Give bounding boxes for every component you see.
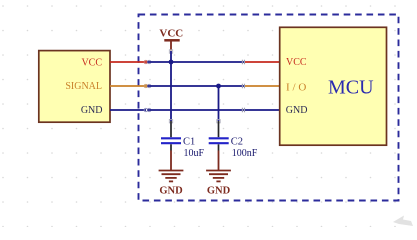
svg-text:VCC: VCC (159, 28, 183, 40)
wire GND net (148, 109, 245, 111)
dashed block boundary (139, 15, 399, 201)
capacitor C1 (161, 120, 181, 151)
pin end marker GND (MCU side) (242, 108, 244, 113)
ground symbol at C2 (206, 171, 231, 182)
pin GND of left block (110, 109, 146, 111)
junction: VCC net / C1 branch (169, 60, 174, 65)
svg-text:100nF: 100nF (232, 148, 258, 159)
left block body (39, 51, 110, 123)
pin VCC of left block (110, 61, 147, 63)
net entry circles VCC (144, 60, 151, 63)
svg-text:GND: GND (207, 186, 231, 197)
pin SIGNAL of left block (110, 85, 147, 87)
svg-text:GND: GND (159, 186, 183, 197)
svg-text:VCC: VCC (286, 57, 307, 68)
net entry circles SIGNAL (144, 84, 151, 87)
wire VCC net (148, 61, 245, 63)
junction: I/O net / C2 branch (216, 84, 221, 89)
wire C2 to ground (218, 151, 220, 171)
svg-text:C2: C2 (231, 137, 243, 148)
wire C2 branch (I/O net down) (218, 86, 220, 121)
wire VCC stem to net (170, 51, 172, 62)
watermark arrow (393, 216, 413, 227)
MCU block body (280, 27, 387, 145)
svg-text:MCU: MCU (328, 77, 374, 99)
net entry circles GND (144, 108, 151, 111)
svg-text:VCC: VCC (81, 58, 102, 69)
capacitor C2 (209, 120, 229, 151)
svg-text:C1: C1 (183, 137, 195, 148)
wire I/O net (148, 85, 245, 87)
wire C1 to ground (170, 151, 172, 171)
svg-text:10uF: 10uF (184, 148, 205, 159)
ground symbol at C1 (159, 171, 184, 182)
pin end marker VCC (MCU side) (242, 60, 244, 65)
pin I/O of MCU (245, 85, 280, 87)
svg-text:GND: GND (81, 105, 103, 116)
svg-text:I/O: I/O (286, 82, 309, 94)
pin end marker I/O (MCU side) (242, 84, 244, 89)
power symbol VCC (159, 28, 183, 54)
pin GND of MCU (245, 109, 280, 111)
svg-text:SIGNAL: SIGNAL (65, 81, 102, 92)
pin VCC of MCU (245, 61, 280, 63)
svg-text:GND: GND (286, 105, 308, 116)
wire C1 branch (VCC net down) (170, 62, 172, 121)
